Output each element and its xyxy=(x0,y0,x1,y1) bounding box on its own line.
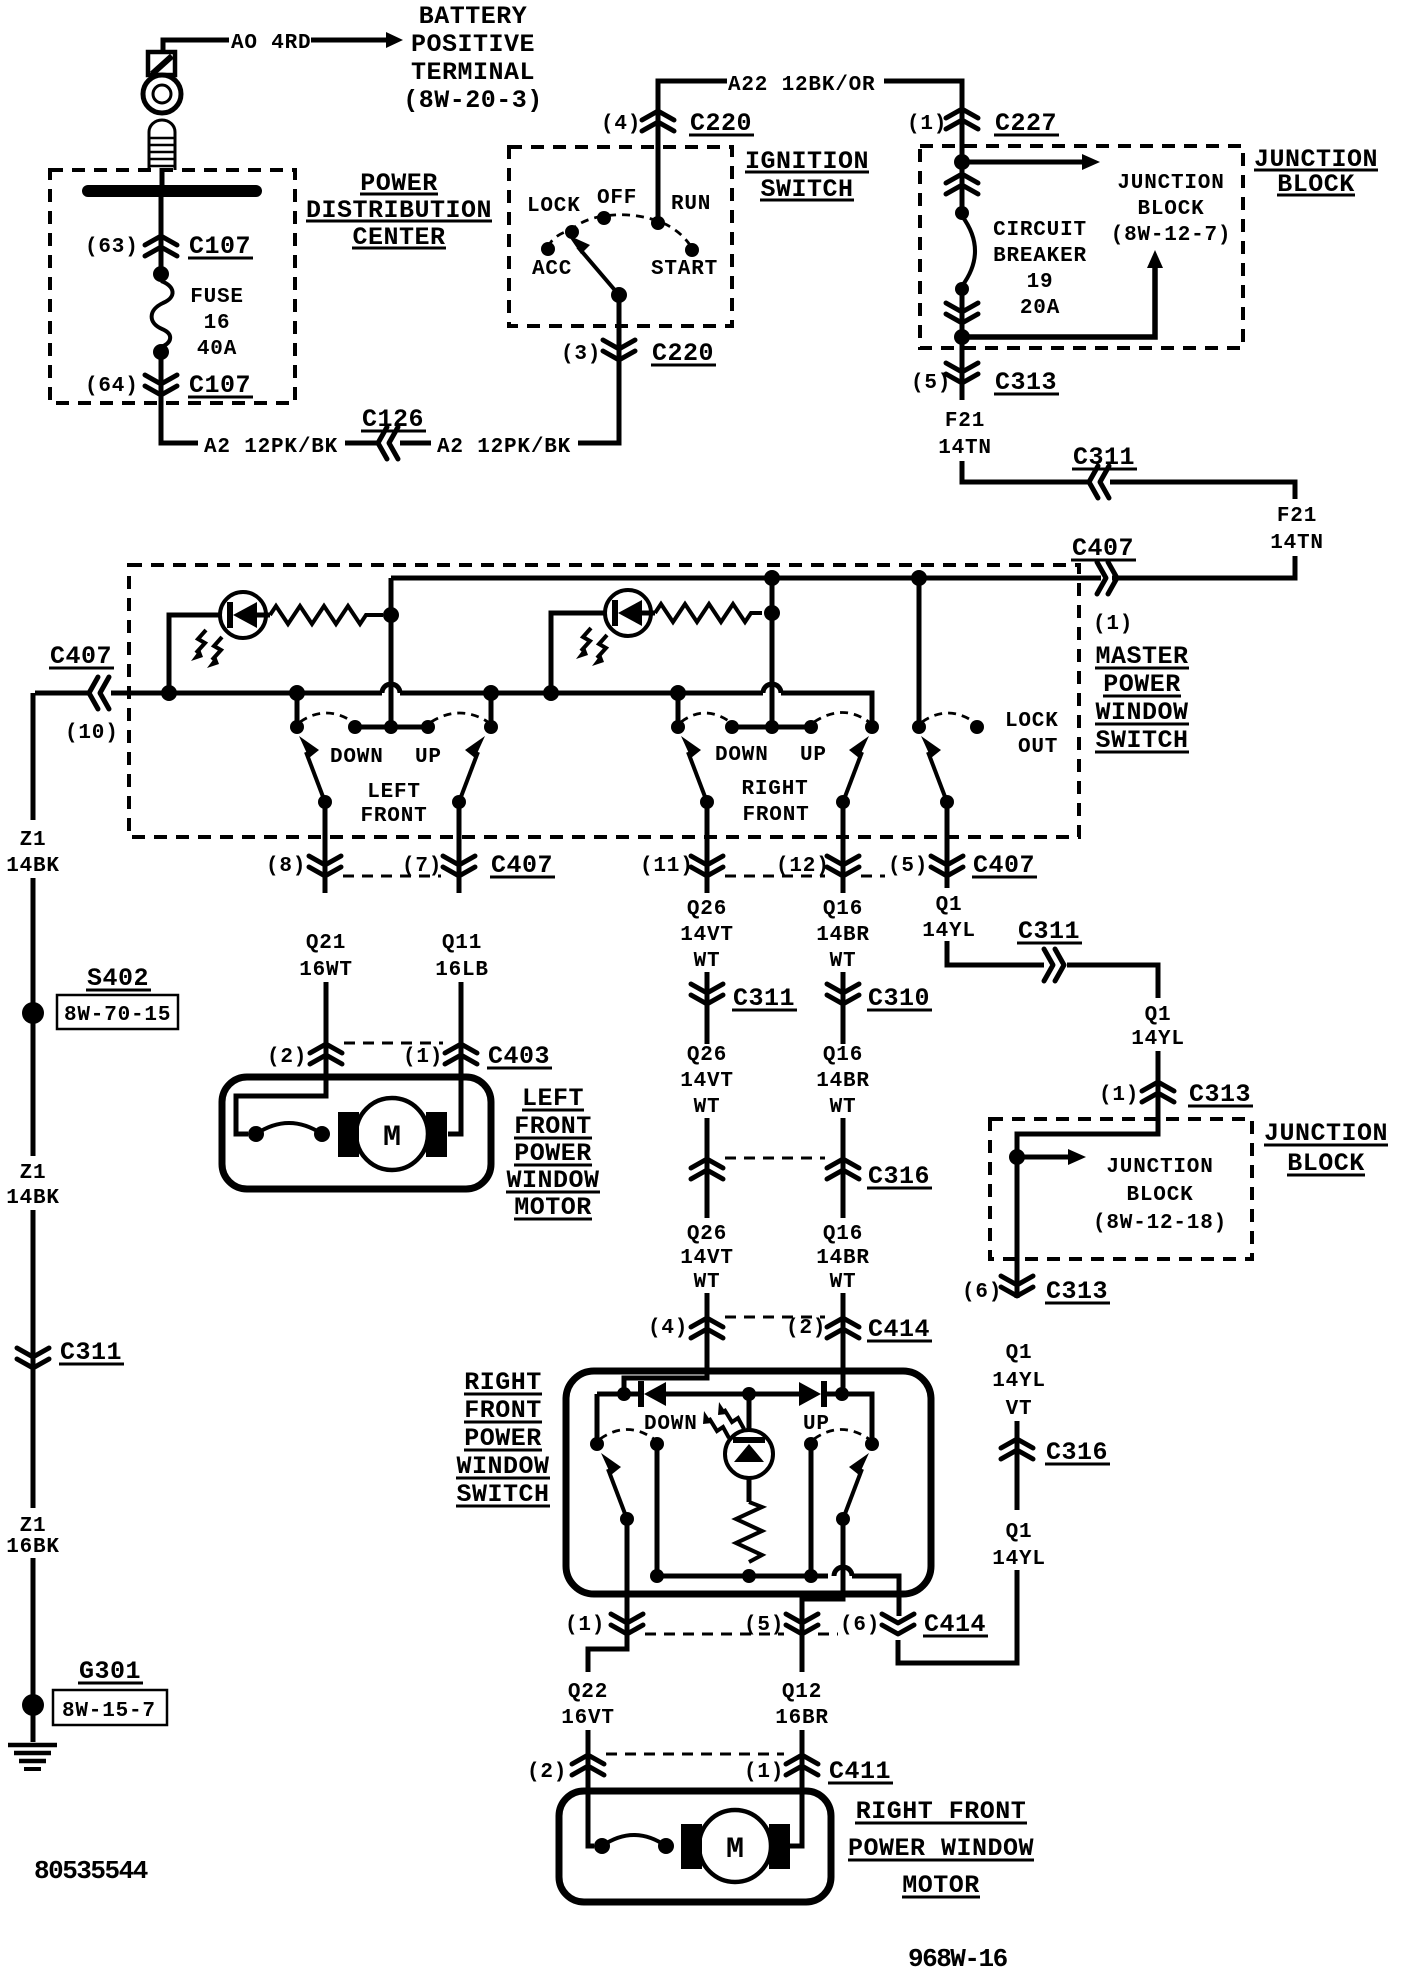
svg-text:14BK: 14BK xyxy=(6,855,60,878)
svg-text:(1): (1) xyxy=(907,113,947,136)
right motor wire right xyxy=(790,1791,802,1846)
switch LED to resistor wire xyxy=(747,1478,752,1502)
svg-text:F21: F21 xyxy=(945,410,985,433)
bus hop over left switch vertical xyxy=(382,684,400,693)
connector C107 pin 63 chevrons xyxy=(145,236,177,256)
label LOCK OUT xyxy=(1005,710,1059,759)
switch diode row wire middle xyxy=(666,1392,800,1397)
label Z1 14BK upper xyxy=(6,829,60,878)
label Q1 14YL (lockout) xyxy=(922,894,976,943)
label C107 lower xyxy=(188,371,253,400)
switch bottom bar xyxy=(657,1574,828,1579)
svg-text:19: 19 xyxy=(1027,271,1054,294)
right LED light arrows xyxy=(576,628,607,666)
right motor armature circle xyxy=(699,1810,771,1882)
svg-text:Q16: Q16 xyxy=(823,1044,863,1067)
label Q1 14YL VT xyxy=(992,1342,1046,1421)
label Q1 14YL bottom xyxy=(992,1521,1046,1571)
fuse 16 40A element xyxy=(152,281,173,347)
left ground wire from bus xyxy=(31,693,36,820)
wire Z1 to S402 xyxy=(31,878,36,1004)
arrow to junction block text xyxy=(962,154,1100,170)
label C220 lower xyxy=(651,339,716,368)
svg-text:14BR: 14BR xyxy=(816,924,870,947)
svg-text:(1): (1) xyxy=(403,1046,443,1069)
svg-text:CIRCUIT: CIRCUIT xyxy=(993,219,1087,242)
connector C411 pin 1 chevrons xyxy=(786,1755,818,1775)
ground symbol xyxy=(8,1745,57,1769)
svg-text:20A: 20A xyxy=(1020,297,1060,320)
wire C414 pin1 jog to Q22 xyxy=(588,1640,627,1672)
bus wire from C407 (10) xyxy=(35,691,90,696)
svg-text:(8W-12-18): (8W-12-18) xyxy=(1093,1212,1227,1235)
left switch pole dots xyxy=(318,795,332,809)
svg-text:WT: WT xyxy=(830,1096,857,1119)
svg-text:LEFT: LEFT xyxy=(367,781,421,804)
left LED feed stub xyxy=(169,615,221,693)
left resistor xyxy=(270,606,383,624)
svg-text:Z1: Z1 xyxy=(20,829,47,852)
label Z1 14BK middle xyxy=(6,1162,60,1210)
svg-text:WT: WT xyxy=(694,1096,721,1119)
junction dot below fuse xyxy=(153,344,169,360)
connector C403 pin 2 chevrons xyxy=(310,1044,342,1064)
svg-text:LOCK: LOCK xyxy=(1005,710,1059,733)
switch bottom bar dots xyxy=(650,1569,664,1583)
feed vertical right front xyxy=(770,578,775,725)
svg-text:TERMINAL: TERMINAL xyxy=(411,58,535,87)
svg-text:(63): (63) xyxy=(85,236,139,259)
svg-text:Z1: Z1 xyxy=(20,1515,47,1538)
wire Q21 to left motor xyxy=(236,982,326,1134)
svg-text:WT: WT xyxy=(830,950,857,973)
svg-text:14VT: 14VT xyxy=(680,1247,734,1270)
svg-text:BATTERY: BATTERY xyxy=(419,2,528,31)
right switch left contact stub xyxy=(676,693,681,724)
wire ignition RUN feed and A22 row xyxy=(658,81,727,220)
svg-text:8W-70-15: 8W-70-15 xyxy=(64,1004,171,1027)
wire A0 4RD to battery xyxy=(163,40,229,52)
svg-text:14TN: 14TN xyxy=(938,437,992,460)
svg-text:Q12: Q12 xyxy=(782,1681,822,1704)
wire Z1 to ground xyxy=(31,1558,36,1742)
right motor wire left xyxy=(588,1791,594,1846)
PDC bus bar xyxy=(88,185,256,197)
wire Q26 to right switch xyxy=(624,1293,707,1394)
left resistor junction dot xyxy=(383,607,399,623)
svg-text:(2): (2) xyxy=(786,1317,826,1340)
svg-text:FUSE: FUSE xyxy=(190,286,244,309)
label IGNITION SWITCH xyxy=(745,147,869,204)
wire A22 to junction block xyxy=(884,81,962,165)
top feed wire inside master switch xyxy=(391,576,1101,581)
svg-text:16WT: 16WT xyxy=(299,959,353,982)
junction dot junction block exit xyxy=(954,329,970,345)
svg-text:(5): (5) xyxy=(888,855,928,878)
feed junction dot right front xyxy=(764,570,780,586)
switch inner right vertical xyxy=(809,1444,814,1576)
svg-text:80535544: 80535544 xyxy=(34,1856,148,1886)
svg-text:A2 12PK/BK: A2 12PK/BK xyxy=(437,436,571,459)
wire left switch up pole to C403 xyxy=(457,802,462,893)
svg-text:(1): (1) xyxy=(1093,613,1133,636)
label C407 left xyxy=(49,642,114,671)
svg-text:(8W-20-3): (8W-20-3) xyxy=(403,86,543,115)
svg-text:Q1: Q1 xyxy=(936,894,963,917)
junction dot JB2 xyxy=(1009,1149,1025,1165)
label C407 pin 5 xyxy=(972,851,1037,880)
switch left outer vertical xyxy=(595,1394,600,1442)
right switch dashed arcs xyxy=(681,713,730,722)
C407 connector dashed links xyxy=(343,875,441,878)
label Q26 14VT WT block2 xyxy=(680,1044,734,1119)
right resistor xyxy=(655,604,762,622)
label F21 14TN right xyxy=(1270,505,1324,555)
connector C316 chevrons (Q1) xyxy=(1001,1439,1033,1459)
label FUSE 16 40A xyxy=(190,286,244,361)
label C313 xyxy=(994,368,1059,397)
connector C220 pin 4 chevrons xyxy=(642,111,674,131)
label C411 xyxy=(828,1757,893,1786)
connector C126 chevrons xyxy=(378,427,398,459)
switch LED center vertical xyxy=(747,1394,752,1431)
wire breaker to junction block exit xyxy=(960,289,965,400)
right motor brushes xyxy=(681,1824,702,1869)
left switch up pole arrow xyxy=(459,736,485,802)
svg-text:16LB: 16LB xyxy=(435,959,489,982)
connector C407 pin 5 chevrons xyxy=(931,856,963,876)
label JUNCTION BLOCK (8W-12-18) xyxy=(1093,1156,1227,1235)
connector C407 pin 12 chevrons xyxy=(827,856,859,876)
label JUNCTION BLOCK (8W-12-7) xyxy=(1111,172,1232,247)
svg-text:(2): (2) xyxy=(527,1761,567,1784)
svg-text:16: 16 xyxy=(204,312,231,335)
wire Q26 between labels 2 xyxy=(705,1118,710,1218)
connector C313 pin 1 chevrons xyxy=(1142,1082,1174,1102)
svg-text:14YL: 14YL xyxy=(922,920,976,943)
svg-text:14BR: 14BR xyxy=(816,1247,870,1270)
wire lock out pole out xyxy=(945,802,950,888)
svg-text:POSITIVE: POSITIVE xyxy=(411,30,535,59)
svg-text:(1): (1) xyxy=(744,1761,784,1784)
left switch center bar xyxy=(355,725,428,730)
switch down pole arrow xyxy=(601,1453,627,1519)
svg-text:14YL: 14YL xyxy=(1131,1028,1185,1051)
left switch left contact stub xyxy=(295,693,300,724)
svg-text:Z1: Z1 xyxy=(20,1162,47,1185)
svg-text:(12): (12) xyxy=(776,855,830,878)
svg-text:Q16: Q16 xyxy=(823,1223,863,1246)
ground G301 dot xyxy=(22,1694,44,1716)
svg-text:14BR: 14BR xyxy=(816,1070,870,1093)
wire Q1 through C316 xyxy=(1015,1421,1020,1510)
svg-text:A22 12BK/OR: A22 12BK/OR xyxy=(728,74,875,97)
right motor terminal dots xyxy=(594,1838,610,1854)
switch up pole arrow xyxy=(843,1453,869,1519)
label C316 (Q1) xyxy=(1045,1438,1110,1467)
right switch down pole arrow xyxy=(681,736,707,802)
label C126 xyxy=(361,405,426,434)
connector C107 pin 64 chevrons xyxy=(145,375,177,395)
arrow to junction block 2 text xyxy=(1017,1149,1086,1165)
svg-text:FRONT: FRONT xyxy=(360,805,427,828)
svg-text:(6): (6) xyxy=(962,1281,1002,1304)
svg-text:(5): (5) xyxy=(911,372,951,395)
wire C311 to right edge corner xyxy=(1110,482,1295,499)
connector C403 pin 1 chevrons xyxy=(445,1044,477,1064)
battery ring terminal xyxy=(143,75,181,113)
down diode xyxy=(638,1381,666,1407)
label C403 xyxy=(487,1042,552,1071)
battery feed stud (bolt) xyxy=(148,52,175,75)
wire Q12 to C411 xyxy=(800,1640,805,1791)
svg-text:UP: UP xyxy=(415,746,442,769)
feed wire extension to C407 xyxy=(1112,576,1295,581)
label C311 xyxy=(1072,443,1137,472)
connector C316 chevrons (Q26) xyxy=(691,1159,723,1179)
label CIRCUIT BREAKER 19 20A xyxy=(993,219,1087,320)
C403 dashed link xyxy=(344,1042,443,1045)
wire A2 to ignition switch xyxy=(578,300,619,443)
label C311 (Q26) xyxy=(732,984,797,1013)
C316 dashed link xyxy=(725,1157,825,1160)
svg-text:Q26: Q26 xyxy=(687,898,727,921)
right front power window switch box xyxy=(566,1371,931,1594)
internal wire with up arrow to junction block text xyxy=(962,250,1163,337)
wire Q16 to right switch xyxy=(841,1293,846,1394)
label Q26 14VT WT block3 xyxy=(680,1223,734,1294)
svg-text:LOCK: LOCK xyxy=(527,195,581,218)
label C414 top xyxy=(867,1315,932,1344)
svg-text:(8W-12-7): (8W-12-7) xyxy=(1111,224,1232,247)
wire Q16 between labels 1 xyxy=(841,972,846,1044)
svg-text:DOWN: DOWN xyxy=(330,746,384,769)
switch up pole wire to C414 pin 5 xyxy=(802,1519,843,1640)
master power window switch dashed box xyxy=(129,565,1079,837)
ignition pivot dot xyxy=(611,287,627,303)
connector C407 pin 8 chevrons xyxy=(309,856,341,876)
svg-text:FRONT: FRONT xyxy=(742,804,809,827)
junction block internal chevrons upper xyxy=(946,174,978,194)
right switch bar dots xyxy=(725,720,739,734)
label C407 pins 7-8 xyxy=(490,851,555,880)
svg-text:M: M xyxy=(726,1833,744,1867)
svg-text:(11): (11) xyxy=(640,855,694,878)
svg-text:(2): (2) xyxy=(267,1046,307,1069)
connector C313 pin 5 chevrons xyxy=(946,363,978,383)
left LED light arrows xyxy=(191,630,222,668)
svg-text:UP: UP xyxy=(803,1413,830,1436)
label C316 xyxy=(867,1162,932,1191)
left switch dashed arcs xyxy=(300,713,353,722)
switch LED circle xyxy=(725,1430,773,1478)
left switch right contact stub xyxy=(489,693,494,724)
wire Q11 to left motor xyxy=(448,982,461,1134)
svg-text:Q11: Q11 xyxy=(442,932,482,955)
svg-text:WT: WT xyxy=(830,1271,857,1294)
label Z1 16BK xyxy=(6,1515,60,1559)
right switch up pole arrow xyxy=(843,736,869,802)
lock out vertical xyxy=(917,578,922,725)
C414 dashed link top xyxy=(725,1316,825,1319)
right illumination LED xyxy=(605,590,655,636)
connector C227 pin 1 chevrons xyxy=(946,109,978,129)
svg-text:DOWN: DOWN xyxy=(715,744,769,767)
svg-text:M: M xyxy=(383,1121,401,1155)
connector C414 pin 4 chevrons xyxy=(691,1318,723,1338)
right front power window motor box xyxy=(559,1791,831,1902)
wire left switch down pole to C403 xyxy=(323,802,328,893)
right switch center bar xyxy=(732,725,811,730)
svg-text:F21: F21 xyxy=(1277,505,1317,528)
connector C313 pin 6 chevrons xyxy=(1001,1276,1033,1296)
label C414 bottom xyxy=(923,1610,988,1639)
svg-text:(4): (4) xyxy=(601,113,641,136)
svg-text:(6): (6) xyxy=(840,1614,880,1637)
S402 reference box 8W-70-15 xyxy=(57,995,178,1029)
G301 reference box 8W-15-7 xyxy=(53,1690,167,1725)
label Q22 16VT xyxy=(561,1681,615,1730)
svg-text:BLOCK: BLOCK xyxy=(1126,1184,1193,1207)
svg-text:(1): (1) xyxy=(1099,1084,1139,1107)
circuit breaker 19 element xyxy=(962,216,975,286)
connector C310 chevrons (Q16) xyxy=(827,984,859,1004)
connector C407 pin 7 chevrons xyxy=(443,856,475,876)
svg-text:JUNCTION: JUNCTION xyxy=(1117,172,1224,195)
battery cable coil xyxy=(149,120,175,170)
svg-text:VT: VT xyxy=(1006,1398,1033,1421)
switch diode row wire left xyxy=(597,1392,638,1397)
bus hop over right switch vertical xyxy=(763,684,781,693)
wire A2 to C126 xyxy=(345,441,380,446)
lock out contact dot xyxy=(912,720,926,734)
right motor jumper wire xyxy=(602,1835,666,1846)
label C313 (6) xyxy=(1045,1277,1110,1306)
label MASTER POWER WINDOW SWITCH xyxy=(1095,642,1189,755)
label POWER DISTRIBUTION CENTER xyxy=(306,169,492,252)
wire Q26 between labels 1 xyxy=(705,972,710,1044)
svg-text:Q21: Q21 xyxy=(306,932,346,955)
arrowhead to battery positive terminal xyxy=(386,32,403,48)
connector C414 pin 6 chevrons xyxy=(882,1614,914,1634)
connector C407 pin 1 chevrons xyxy=(1097,562,1117,594)
svg-text:A2 12PK/BK: A2 12PK/BK xyxy=(204,436,338,459)
label Q26 14VT WT block1 xyxy=(680,898,734,973)
left motor armature circle xyxy=(356,1098,428,1170)
label Q16 14BR WT block1 xyxy=(816,898,870,973)
bus junction dots xyxy=(161,685,177,701)
svg-text:Q1: Q1 xyxy=(1006,1521,1033,1544)
svg-text:968W-16: 968W-16 xyxy=(908,1944,1008,1970)
left switch down pole arrow xyxy=(299,736,325,802)
label F21 14TN left xyxy=(938,410,992,460)
svg-text:Q22: Q22 xyxy=(568,1681,608,1704)
svg-text:14YL: 14YL xyxy=(992,1548,1046,1571)
svg-text:(7): (7) xyxy=(402,855,442,878)
label JUNCTION BLOCK bold xyxy=(1254,145,1378,199)
svg-text:AO 4RD: AO 4RD xyxy=(231,32,311,55)
svg-text:OUT: OUT xyxy=(1018,736,1058,759)
right resistor junction dot xyxy=(764,605,780,621)
label Q1 14YL (column 2) xyxy=(1131,1004,1185,1051)
label G301 xyxy=(78,1657,143,1686)
label C310 xyxy=(867,984,932,1013)
connector C311 chevrons (Q1) xyxy=(1044,949,1064,981)
splice S402 dot xyxy=(22,1002,44,1024)
label S402 xyxy=(86,964,151,993)
label C311 (Q1) xyxy=(1017,917,1082,946)
bus wire right end to contact xyxy=(781,693,872,725)
svg-text:BREAKER: BREAKER xyxy=(993,245,1087,268)
left motor terminal dots xyxy=(248,1126,264,1142)
svg-text:16BK: 16BK xyxy=(6,1536,60,1559)
lock out open dot xyxy=(970,720,984,734)
connector C316 chevrons (Q16) xyxy=(827,1159,859,1179)
bus wire left half xyxy=(111,691,382,696)
connector C414 pin 1 chevrons xyxy=(611,1614,643,1634)
connector C220 pin 3 chevrons xyxy=(603,340,635,360)
svg-text:(8): (8) xyxy=(266,855,306,878)
ignition switch dashed box xyxy=(509,147,732,326)
right switch pole dots xyxy=(700,795,714,809)
lock out pole arrow xyxy=(921,736,947,802)
wire lock out Q1 jog to C311 xyxy=(947,941,1044,965)
feed vertical left front xyxy=(389,578,394,725)
switch diode row wire right xyxy=(827,1394,872,1442)
left switch bar dots xyxy=(348,720,362,734)
label Q16 14BR WT block3 xyxy=(816,1223,870,1294)
wire to circuit breaker xyxy=(960,162,965,213)
wire F21 to C311 xyxy=(962,461,1089,482)
switch diode row dots xyxy=(617,1387,631,1401)
switch resistor vertical xyxy=(736,1502,762,1562)
feed junction dot lock out xyxy=(911,570,927,586)
svg-text:DOWN: DOWN xyxy=(644,1413,698,1436)
svg-text:16VT: 16VT xyxy=(561,1707,615,1730)
bus wire middle xyxy=(400,691,763,696)
wire fuse to A2 row xyxy=(161,352,198,443)
label RIGHT FRONT POWER WINDOW SWITCH xyxy=(456,1368,550,1509)
svg-text:(1): (1) xyxy=(565,1614,605,1637)
wire Q1 to C313 junction block xyxy=(1017,1051,1158,1298)
switch bottom bar hop xyxy=(834,1567,852,1576)
wire C311 to Q1 column xyxy=(1067,965,1158,998)
wire A0 4RD segment 2 xyxy=(311,38,386,43)
label Q21 16WT xyxy=(299,932,353,982)
label C220 upper xyxy=(689,109,754,138)
svg-text:14YL: 14YL xyxy=(992,1370,1046,1393)
label C313 (1) xyxy=(1188,1080,1253,1109)
C414 dashed link bottom xyxy=(645,1633,784,1636)
svg-text:BLOCK: BLOCK xyxy=(1137,198,1204,221)
svg-text:WT: WT xyxy=(694,1271,721,1294)
switch contact dots xyxy=(590,1437,604,1451)
wire stud to bus bar xyxy=(160,168,165,188)
connector C311 chevrons (Q26) xyxy=(691,984,723,1004)
right switch contact dots xyxy=(671,720,685,734)
svg-text:16BR: 16BR xyxy=(775,1707,829,1730)
label LEFT FRONT xyxy=(360,781,427,828)
right LED feed stub xyxy=(551,613,606,693)
switch down pole wire to C414 pin 1 xyxy=(625,1519,630,1640)
svg-text:ACC: ACC xyxy=(532,258,572,281)
switch LED light arrows xyxy=(703,1402,744,1438)
svg-text:(64): (64) xyxy=(85,375,139,398)
circuit breaker dot lower xyxy=(955,282,969,296)
svg-text:14TN: 14TN xyxy=(1270,532,1324,555)
svg-text:OFF: OFF xyxy=(597,187,637,210)
junction block 2 dashed box xyxy=(990,1119,1252,1259)
